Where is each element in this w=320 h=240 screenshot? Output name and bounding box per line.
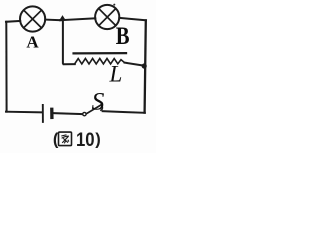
svg-text:B: B <box>116 23 130 50</box>
wire top-left to lamp A <box>6 20 20 23</box>
inductor L core bar <box>74 52 126 55</box>
wire battery to switch <box>53 113 82 114</box>
lamp B <box>95 5 119 29</box>
wire branch vertical <box>63 20 75 64</box>
wire left vertical <box>5 22 7 112</box>
wire lamp A to node <box>45 19 60 22</box>
battery long plate <box>42 105 44 122</box>
wire lamp B to top-right corner <box>119 18 146 20</box>
svg-text:10: 10 <box>76 130 95 151</box>
switch S blade <box>87 105 101 114</box>
node junction arrow <box>59 15 65 20</box>
wire bottom-right horizontal <box>103 111 145 113</box>
wire inductor to right bus <box>125 63 144 66</box>
wire bottom-left horizontal <box>6 111 42 114</box>
lamp A <box>20 6 45 31</box>
svg-text:S: S <box>92 86 105 115</box>
switch S blade hook <box>101 105 103 110</box>
svg-text:L: L <box>109 62 123 87</box>
wire node to lamp B <box>60 18 95 20</box>
switch S pivot <box>83 112 86 115</box>
caption (图 10) <box>53 130 101 151</box>
svg-text:): ) <box>95 131 101 149</box>
wire right vertical <box>145 20 146 112</box>
inductor L coil <box>75 59 125 65</box>
speck above lamp B <box>113 4 115 6</box>
node dot right <box>142 63 147 68</box>
svg-text:A: A <box>26 32 39 51</box>
battery short plate <box>50 109 53 117</box>
